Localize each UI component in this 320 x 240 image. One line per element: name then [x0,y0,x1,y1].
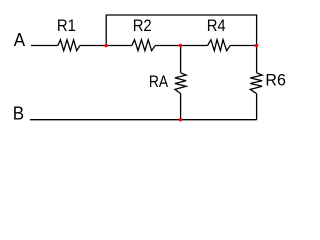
svg-text:R1: R1 [57,17,76,35]
wire bottom rail [30,119,257,121]
resistor R4 [208,40,231,51]
wire [155,45,207,47]
wire [180,94,182,120]
junction dot 4 [179,118,182,121]
wire [256,46,258,73]
svg-text:RA: RA [149,73,169,91]
resistor R1 [58,40,80,51]
junction dot 3 [255,44,258,47]
svg-text:B: B [13,103,24,124]
junction dot 1 [105,44,108,47]
resistor RA [175,73,186,94]
svg-text:R2: R2 [133,18,152,36]
svg-text:R6: R6 [265,71,285,89]
wire [31,45,58,47]
svg-text:R4: R4 [207,17,226,35]
junction dot 2 [179,44,182,47]
wire top loop [106,15,256,46]
wire [80,45,132,47]
wire [256,94,258,120]
resistor R2 [132,40,155,51]
resistor R6 [250,73,262,94]
svg-text:A: A [14,30,26,51]
wire [180,46,182,73]
wire [230,45,256,47]
